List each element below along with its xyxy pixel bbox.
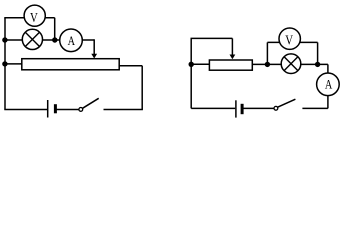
wire: bottom right segment (302, 107, 328, 109)
wire: slider arrow stem (231, 38, 233, 55)
switch S2 (274, 99, 295, 110)
svg-text:V: V (30, 11, 38, 26)
battery B1 (48, 100, 56, 118)
node: lamp right junction (52, 37, 57, 42)
wire: ammeter to slider arrow (93, 39, 95, 54)
wire: rheostat right lead (119, 65, 142, 67)
wire: voltmeter loop right vertical (317, 42, 319, 64)
wire: slider loop top (191, 37, 233, 39)
voltmeter V1 (24, 5, 45, 26)
node: lamp left junction (265, 62, 270, 67)
wire: left vertical (190, 38, 192, 108)
wire: ammeter branch vertical (327, 64, 329, 108)
ammeter A2 (317, 73, 340, 96)
wire: voltmeter loop top (4, 17, 54, 19)
wire: left vertical (4, 18, 6, 110)
wire: bottom middle segment (242, 107, 274, 109)
wire: bottom left segment (4, 109, 47, 111)
wire: voltmeter loop right vertical (54, 18, 56, 40)
wire: bottom right segment (104, 109, 143, 111)
node: rheostat junction (189, 62, 194, 67)
svg-text:A: A (68, 33, 76, 48)
wire: bottom left segment (191, 107, 235, 109)
wire: voltmeter loop left vertical (266, 42, 268, 64)
wire: voltmeter loop top (267, 41, 317, 43)
node: lamp right junction (315, 62, 320, 67)
svg-text:V: V (285, 33, 293, 48)
wire: right vertical (141, 66, 143, 110)
switch S1 (79, 98, 99, 111)
svg-text:A: A (325, 76, 333, 91)
voltmeter V2 (279, 28, 300, 49)
ammeter A1 (60, 29, 83, 52)
node: rheostat left junction (2, 61, 7, 66)
lamp L1 (22, 29, 42, 49)
wire: rheostat left lead (5, 63, 22, 65)
wire: bottom middle segment (55, 109, 78, 111)
node: lamp left junction (2, 37, 7, 42)
battery B2 (236, 100, 242, 117)
arrow: rheostat slider R1 (91, 54, 97, 59)
wire: lamp row (5, 39, 94, 41)
wire: rheostat left lead (191, 63, 209, 65)
wire: lamp row (252, 63, 328, 65)
resistor R2 (rheostat body) (209, 60, 252, 70)
lamp L2 (281, 54, 301, 74)
resistor R1 (rheostat body) (22, 59, 119, 70)
arrow: rheostat slider R2 (230, 55, 236, 60)
